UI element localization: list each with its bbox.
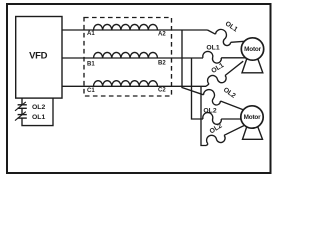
control loop wire bottom and right segments [22,98,53,126]
svg-text:OL2: OL2 [203,107,216,114]
svg-text:OL1: OL1 [210,62,225,75]
wire bend into OL2 heater C [207,144,209,146]
overload heater OL1 phase B [203,51,222,63]
wire bend into OL1 heater C [206,84,209,86]
NC overload contact OL1 [15,112,27,121]
overload heater OL1 phase C [206,70,228,89]
motor 1 M1 [241,38,263,60]
wire OL1 C to motor 1 [225,61,243,75]
svg-text:C2: C2 [158,87,166,93]
svg-text:OL1: OL1 [206,44,219,51]
svg-text:Motor: Motor [244,114,261,121]
motor 2 M2 [241,106,263,128]
svg-text:A1: A1 [87,31,95,37]
reactor coil B1-B2 [94,52,158,58]
wire OL2 B to motor 2 [221,118,241,120]
border frame of schematic [7,4,271,173]
branch wire phase B down to motor 2 [192,58,204,119]
svg-text:C1: C1 [87,88,95,94]
wire bend into OL1 heater A [208,30,216,34]
overload heater OL1 phase A [213,27,235,46]
reactor coil A1-A2 [94,24,158,30]
svg-text:OL2: OL2 [209,122,224,135]
wire phase B from VFD to reactor [62,57,203,59]
svg-text:B1: B1 [87,62,95,68]
svg-text:OL2: OL2 [32,104,45,111]
wire phase A from VFD to reactor [62,29,208,31]
branch wire phase C down to motor 2 [201,86,207,145]
wire phase C from VFD to reactor [62,85,206,87]
reactor coil C1-C2 [94,81,158,87]
svg-text:A2: A2 [158,32,166,38]
control loop wire between contacts [21,108,23,114]
svg-text:Motor: Motor [244,46,261,53]
NC overload contact OL2 [15,102,27,111]
wire OL1 B to motor 1 [221,57,246,59]
overload heater OL2 phase A [201,88,223,106]
VFD drive U1 [16,17,62,99]
control loop wire left segment [21,98,23,105]
branch wire phase A down to motor 2 [182,30,204,95]
wire OL1 A to motor 1 [231,41,245,42]
overload heater OL2 phase C [205,130,227,149]
svg-text:B2: B2 [158,61,166,67]
wire OL2 C to motor 2 [224,126,244,136]
svg-text:VFD: VFD [29,51,48,62]
overload heater OL2 phase B [203,113,222,125]
motor 1 base [242,58,263,73]
load reactor dashed enclosure [84,18,172,97]
wire OL2 A to motor 2 [220,101,243,110]
svg-text:OL1: OL1 [32,114,45,121]
motor 2 base [243,126,263,139]
svg-text:OL2: OL2 [222,87,237,100]
